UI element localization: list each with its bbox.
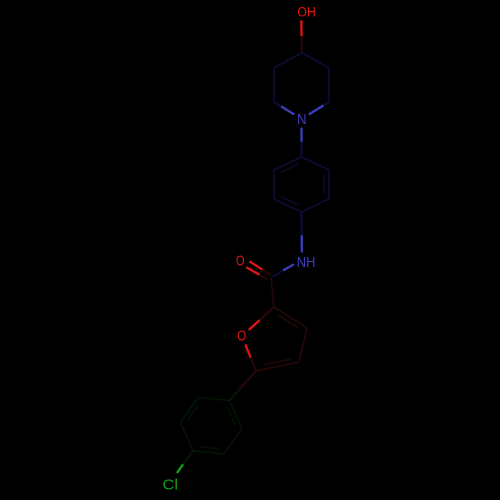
- bond O1-C5 furan: [245, 344, 250, 357]
- bond C1-C2 chlorophenyl: [229, 401, 242, 429]
- double bond inner line C4-C5 benzene: [281, 197, 299, 205]
- svg-text:N: N: [297, 112, 307, 128]
- bond C4-C5 piperidine: [302, 53, 329, 69]
- bond C4-Cl chloro: [183, 451, 193, 465]
- svg-text:OH: OH: [297, 5, 316, 20]
- double bond inner line C3-C4 chlorophenyl: [199, 447, 219, 449]
- bond C4-C5 chlorophenyl: [180, 422, 193, 450]
- bond C1-C6 benzene: [274, 157, 302, 170]
- bond N(H)-C carbonyl: [283, 264, 294, 270]
- bond C3-C4 chlorophenyl: [193, 451, 224, 454]
- bond C6-C1 chlorophenyl: [199, 397, 230, 400]
- double bond inner line C2-C3 furan: [278, 315, 299, 328]
- svg-text:NH: NH: [297, 254, 316, 271]
- bond C5(furan)-C1 chlorophenyl: [241, 371, 256, 388]
- bond C1-C2 benzene: [302, 157, 330, 170]
- svg-text:O: O: [236, 253, 245, 269]
- bond C4-N amide: [300, 212, 303, 235]
- double bond C=O carbonyl: [249, 261, 262, 269]
- bond C5-C6 piperidine: [328, 68, 330, 102]
- bond C3-C2 piperidine: [273, 68, 275, 102]
- svg-text:O: O: [237, 329, 246, 345]
- bond N1-C6 piperidine: [309, 105, 324, 114]
- bond C5-C6 chlorophenyl: [180, 397, 198, 422]
- bond N1-C1 phenylene: [300, 128, 302, 142]
- bond C2-O1 furan: [260, 307, 274, 320]
- double bond inner line C1-C2 chlorophenyl: [228, 407, 236, 425]
- bond C3-C4 benzene: [302, 199, 330, 212]
- bond C4-C3 piperidine: [274, 53, 302, 69]
- bond C6-C5 benzene: [273, 170, 275, 199]
- double bond inner line C2-C3 benzene: [323, 175, 325, 194]
- bond C5-C4 benzene: [274, 199, 302, 212]
- bond N1-C2 piperidine: [281, 106, 294, 114]
- double bond inner line C5-C6 chlorophenyl: [187, 404, 199, 420]
- bond O(H)-C4 piperidinol: [300, 20, 303, 36]
- double bond inner line C4-C5 furan: [263, 359, 291, 365]
- bond C(carbonyl)-C2 furan: [271, 278, 274, 308]
- svg-text:Cl: Cl: [163, 477, 179, 493]
- bond C4-C5 furan: [256, 362, 299, 371]
- double bond inner line C6-C1 benzene: [281, 164, 299, 172]
- bond C2-C3 benzene: [328, 170, 330, 199]
- bond C2-C3 furan: [274, 307, 307, 328]
- bond C3-C4 furan: [299, 328, 307, 362]
- bond C2-C3 chlorophenyl: [224, 429, 242, 454]
